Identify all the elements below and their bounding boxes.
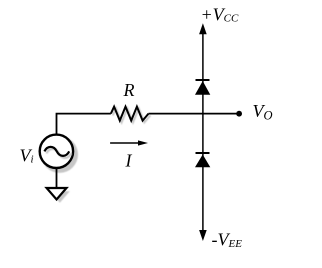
shadow of resistor R	[113, 108, 151, 122]
svg-text:R: R	[123, 80, 135, 100]
svg-text:Vi: Vi	[20, 146, 34, 166]
svg-text:VO: VO	[253, 101, 273, 123]
wire: source to node (main horizontal)	[57, 114, 111, 134]
diode D1 bar (cathode)	[196, 79, 210, 81]
shadow of sine	[46, 149, 71, 158]
diode D2 triangle (anode)	[195, 155, 210, 168]
vertical rail wire	[202, 31, 204, 232]
node dot Vo	[236, 111, 242, 117]
diode D2 bar (cathode)	[196, 152, 210, 154]
current arrow I	[110, 142, 139, 144]
svg-text:+VCC: +VCC	[201, 4, 239, 24]
svg-text:-VEE: -VEE	[212, 230, 243, 251]
source sine wave	[44, 147, 69, 156]
arrowhead to +Vcc	[199, 23, 207, 34]
shadow of source circle	[41, 136, 78, 173]
ground symbol	[47, 188, 67, 200]
source Vi circle	[40, 135, 73, 168]
wire: source to ground	[56, 168, 58, 188]
diode D1 triangle (anode)	[195, 81, 210, 95]
resistor R	[111, 107, 149, 121]
arrowhead to -Vee	[199, 230, 207, 241]
svg-text:I: I	[125, 151, 133, 171]
wire: resistor to output dot	[149, 113, 238, 115]
shadow of ground	[50, 191, 70, 203]
